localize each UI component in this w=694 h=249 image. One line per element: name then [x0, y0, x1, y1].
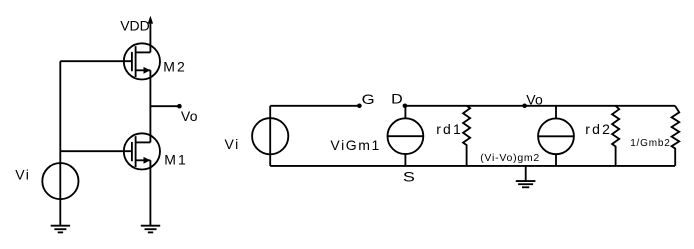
- svg-text:rd1: rd1: [436, 121, 463, 137]
- wire input rail: [59, 61, 61, 226]
- transistor M1: [124, 133, 160, 169]
- current source ViGm1: [388, 106, 424, 166]
- node G dot: [357, 104, 362, 109]
- resistor rd2: [612, 106, 619, 166]
- svg-text:VDD: VDD: [120, 18, 150, 34]
- wire M1 source to ground: [149, 160, 151, 225]
- ground at Vi source: [51, 226, 70, 233]
- svg-text:Vo: Vo: [526, 91, 543, 107]
- svg-text:M1: M1: [164, 152, 187, 168]
- source Vi (small-signal): [252, 118, 288, 154]
- power VDD arrow: [148, 16, 153, 53]
- svg-text:(Vi-Vo)gm2: (Vi-Vo)gm2: [480, 152, 540, 164]
- ground (right circuit): [516, 166, 536, 187]
- current source (Vi-Vo)gm2: [538, 106, 574, 166]
- svg-text:1/Gmb2: 1/Gmb2: [630, 138, 670, 149]
- ground at M1 source: [141, 226, 160, 233]
- wire M1 gate lead: [60, 150, 132, 152]
- svg-text:ViGm1: ViGm1: [330, 137, 381, 153]
- resistor 1/Gmb2: [672, 106, 680, 166]
- svg-text:G: G: [362, 91, 375, 107]
- svg-text:D: D: [391, 91, 403, 107]
- wire bottom rail: [270, 165, 675, 167]
- node D dot: [403, 104, 408, 109]
- svg-text:Vo: Vo: [181, 108, 198, 124]
- svg-text:rd2: rd2: [585, 121, 612, 137]
- resistor rd1: [463, 106, 470, 166]
- svg-text:M2: M2: [163, 58, 186, 74]
- source Vi (left): [42, 163, 78, 199]
- node Vo dot: [177, 104, 182, 109]
- wire left rail (right circuit): [269, 106, 271, 166]
- transistor M2: [124, 43, 160, 79]
- wire top drain rail: [405, 105, 675, 107]
- wire Vo stub: [150, 105, 179, 107]
- svg-text:Vi: Vi: [225, 136, 240, 152]
- wire top to gate node: [270, 105, 359, 107]
- node Vo dot (right): [522, 104, 527, 109]
- wire M2 gate lead: [60, 60, 132, 62]
- svg-text:Vi: Vi: [15, 167, 30, 183]
- wire M2 source to M1 drain: [149, 70, 151, 142]
- svg-text:S: S: [403, 168, 415, 184]
